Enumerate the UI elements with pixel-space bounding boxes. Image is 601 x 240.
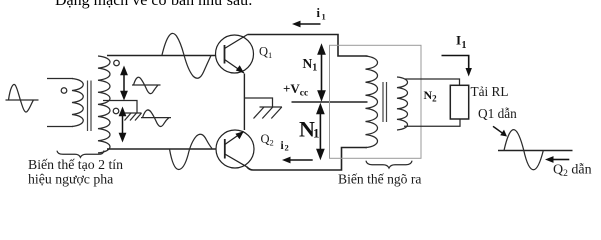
wire: bottom rail Q2 collector to T2 primary bottom xyxy=(247,148,367,171)
transformer T1 primary coil xyxy=(72,79,83,127)
brace under output transformer xyxy=(366,161,412,168)
double arrow N1 upper xyxy=(318,46,324,100)
big sine at Q2 base (inverted) xyxy=(170,134,213,169)
svg-text:Q2 dẫn: Q2 dẫn xyxy=(553,163,592,180)
double arrow N1 lower xyxy=(317,105,323,158)
Q1 emitter arrowhead xyxy=(236,65,244,73)
ground (emitters) xyxy=(254,107,283,119)
svg-text:I: I xyxy=(456,33,461,48)
transistor Q2 xyxy=(216,130,254,168)
svg-text:1: 1 xyxy=(462,40,467,51)
arrow Q2 (left) xyxy=(554,159,570,161)
svg-text:i: i xyxy=(317,6,321,20)
T2 core lines xyxy=(383,82,387,122)
arrow i2 (left) xyxy=(291,159,313,161)
Q2 emitter arrowhead xyxy=(235,131,243,139)
output sine wave xyxy=(504,130,543,170)
svg-text:Dạng mạch vẽ cơ bản như sau:: Dạng mạch vẽ cơ bản như sau: xyxy=(55,0,253,9)
phase dot: T1 secondary mid xyxy=(113,108,119,114)
svg-text:1: 1 xyxy=(322,11,326,21)
svg-text:hiệu ngược pha: hiệu ngược pha xyxy=(28,172,113,187)
transformer T2 secondary coil xyxy=(397,77,408,130)
phase dot: T1 secondary top xyxy=(114,60,120,66)
big sine at Q1 base xyxy=(162,33,211,78)
phase dot: T1 primary xyxy=(61,88,67,94)
diagonal arrow to output sine xyxy=(493,126,502,133)
wire: input primary bottom lead xyxy=(47,126,73,128)
arrow I1 (bent, into load) xyxy=(442,56,469,72)
small sine B (lower phase) xyxy=(141,110,171,127)
wire: top rail Q1 collector to T2 primary top xyxy=(248,35,368,57)
T1 core lines xyxy=(88,81,92,132)
svg-text:Biến thế tạo 2 tín: Biến thế tạo 2 tín xyxy=(28,157,123,172)
double arrow: secondary upper half xyxy=(121,68,127,99)
output sine axis xyxy=(498,150,573,152)
arrow i1 (left) xyxy=(300,23,321,25)
transistor Q1 xyxy=(216,35,254,74)
wire: T1 secondary top to Q1 base xyxy=(107,55,216,57)
input source sine wave xyxy=(6,84,39,112)
wire: T2 secondary top to load xyxy=(405,79,460,85)
svg-text:2: 2 xyxy=(285,143,289,153)
brace under input transformer xyxy=(57,151,104,158)
svg-text:Biến thế ngõ ra: Biến thế ngõ ra xyxy=(338,172,421,187)
ground (input center tap) xyxy=(125,113,142,121)
double arrow: secondary lower half xyxy=(120,109,126,141)
load resistor RL box xyxy=(450,85,468,119)
wire: input primary top lead xyxy=(47,78,73,80)
wire: T1 center tap xyxy=(103,101,137,113)
wire: center tap to +Vcc xyxy=(292,101,368,103)
wire: T2 secondary bottom to load xyxy=(404,119,460,126)
svg-text:Tải RL: Tải RL xyxy=(471,84,509,99)
transformer T1 secondary coil (center tapped) xyxy=(98,56,110,153)
gray box around output transformer xyxy=(330,45,422,158)
transformer T2 primary coil xyxy=(366,56,378,148)
small sine A (upper phase) xyxy=(132,77,161,93)
wire: T1 secondary bottom to Q2 base xyxy=(107,148,216,150)
svg-text:1: 1 xyxy=(313,126,320,141)
svg-text:Q1 dẫn: Q1 dẫn xyxy=(478,106,517,121)
wire: common emitter vertical xyxy=(243,74,245,131)
wire: ground branch xyxy=(244,98,272,107)
